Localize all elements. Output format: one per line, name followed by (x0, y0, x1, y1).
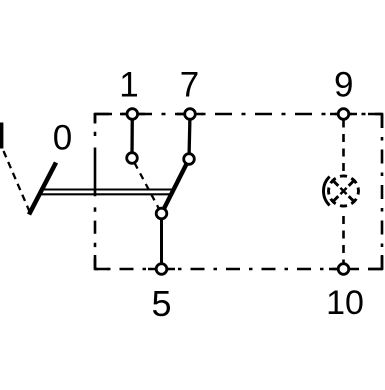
housing corner bottom-right (368, 255, 382, 269)
svg-text:7: 7 (180, 66, 199, 105)
terminal 5 (156, 264, 167, 275)
fixed contact of terminal 7 (184, 154, 195, 165)
wire pivot to terminal 5 (160, 214, 163, 270)
housing corner bottom-left (95, 255, 109, 269)
svg-text:0: 0 (53, 119, 72, 158)
lamp L1 dashed circle (328, 176, 358, 206)
housing border bottom (dash-dot) (95, 268, 382, 271)
svg-text:10: 10 (326, 284, 364, 322)
actuator rod upper line (41, 188, 173, 190)
actuator stop bar (0, 123, 3, 149)
lamp L1 cross arm SW (334, 196, 339, 201)
border stub terminal 5 (148, 268, 175, 271)
actuator lever position 0 (29, 163, 56, 215)
housing corner top-left (95, 114, 109, 123)
border stub terminal 1 (120, 113, 145, 116)
housing border top (dash-dot) (95, 113, 382, 116)
terminal 1 (127, 109, 138, 120)
pivot contact node (156, 208, 167, 219)
lamp optional bracket arc (323, 177, 329, 206)
housing corner top-right (368, 114, 382, 128)
lamp L1 center x (340, 188, 346, 194)
housing border right (dash-dot) (381, 114, 384, 269)
svg-text:1: 1 (119, 66, 138, 105)
actuator alternate position (dashed) (4, 151, 30, 212)
lamp L1 cross arm NE (349, 181, 354, 186)
wire lamp to terminal 10 (dashed) (342, 216, 345, 269)
wire terminal 1 to contact (130, 114, 134, 158)
moving contact alternate position (dashed, to contact 1) (135, 163, 159, 209)
border stub terminal 10 (329, 268, 356, 271)
terminal 9 (338, 109, 349, 120)
border stub terminal 7 (177, 113, 203, 116)
actuator rod lower line (39, 193, 172, 195)
wire terminal 7 to contact (189, 114, 190, 159)
housing border left (dash-dot) (94, 113, 97, 269)
terminal 7 (185, 109, 196, 120)
border stub terminal 9 (330, 113, 357, 116)
moving contact blade (closed to 7) (162, 159, 190, 214)
lamp L1 cross arm NW (334, 181, 339, 186)
svg-text:5: 5 (151, 283, 171, 324)
wire terminal 9 to lamp (dashed) (342, 120, 345, 174)
fixed contact of terminal 1 (127, 153, 138, 164)
lamp L1 cross arm SE (349, 196, 354, 201)
svg-text:9: 9 (334, 66, 353, 105)
terminal 10 (338, 264, 349, 275)
